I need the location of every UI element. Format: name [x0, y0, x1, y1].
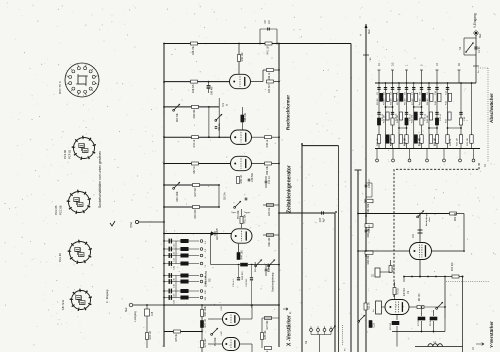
capacitor C12 — [169, 247, 175, 256]
wire rail 145 — [302, 145, 339, 147]
capacitor C48 top — [248, 172, 254, 182]
resistor R59 top — [237, 175, 243, 183]
wire y rail left — [403, 277, 405, 283]
svg-text:R61 30k: R61 30k — [367, 203, 370, 213]
attenuator column 11 — [460, 82, 462, 148]
svg-text:R3 1k: R3 1k — [396, 287, 399, 294]
wire V5 to bus V2 — [251, 70, 280, 82]
svg-text:R63 20k: R63 20k — [367, 255, 370, 265]
svg-text:C48 50n: C48 50n — [251, 172, 254, 182]
attenuator resistor row2b col11 — [459, 118, 462, 125]
potentiometer P6 sync — [255, 260, 262, 267]
resistor R70 — [445, 262, 463, 278]
wire r19 down — [146, 322, 148, 348]
wire sync L — [210, 233, 240, 265]
switch contact C19 — [200, 290, 207, 294]
resistor R69 — [201, 305, 207, 316]
trimmer C7 — [436, 302, 443, 309]
attenuator resistor row2b col5 — [405, 118, 408, 125]
attenuator resistor row2 col6 — [412, 112, 418, 123]
resistor bank C16 — [181, 280, 189, 283]
junction — [163, 106, 165, 108]
svg-text:R47 4k7: R47 4k7 — [194, 187, 197, 197]
label Rechteckformer — [286, 95, 291, 130]
grid box C2 — [373, 301, 382, 314]
wire cap row C15 — [163, 275, 199, 277]
resistor R58 — [241, 107, 247, 130]
diode Gr2 — [211, 228, 219, 240]
svg-text:R9 1M: R9 1M — [427, 98, 429, 105]
label Anodenkappe — [425, 212, 431, 226]
attenuator capacitor row0 col1 — [377, 88, 381, 96]
resistor C23 — [369, 321, 375, 328]
svg-text:C40 4n7: C40 4n7 — [212, 86, 214, 95]
tick T — [355, 170, 362, 171]
svg-text:R24 1M: R24 1M — [390, 138, 392, 146]
wire t8 left — [357, 250, 409, 252]
attenuator resistor row3 col9 — [435, 135, 439, 146]
capacitor C9 — [268, 28, 270, 31]
attenuator column 3 — [392, 82, 394, 148]
attenuator resistor row1 col9 — [435, 93, 441, 105]
svg-text:R31 2k: R31 2k — [450, 138, 452, 146]
resistor R72 — [201, 319, 207, 327]
resistor R37 — [267, 80, 274, 93]
svg-text:3 · Eingang: 3 · Eingang — [105, 289, 109, 303]
svg-text:R57 1k: R57 1k — [193, 165, 196, 173]
wire t8 down — [419, 260, 421, 278]
svg-text:R30 1M: R30 1M — [435, 138, 437, 146]
wire v1 anode — [409, 306, 446, 308]
tube socket PCF80/PCF82 (viewed from below) — [72, 136, 96, 160]
svg-text:R22 2k: R22 2k — [367, 302, 370, 310]
attenuator capacitor row2a col9 — [435, 112, 442, 121]
label Y-Verstaerker — [489, 321, 494, 348]
svg-text:Anodenkappe: Anodenkappe — [425, 212, 428, 226]
svg-text:R56 10k: R56 10k — [266, 165, 269, 175]
capacitor C18 — [145, 304, 155, 322]
dashed screen left — [393, 169, 395, 298]
resistor R44 — [237, 250, 243, 260]
svg-text:R26 1M: R26 1M — [404, 138, 406, 146]
svg-text:Sockelschaltbilder von unten g: Sockelschaltbilder von unten gesehen — [98, 151, 102, 208]
capacitor C15 — [169, 273, 175, 282]
svg-text:Y-Eingang: Y-Eingang — [473, 13, 477, 28]
label PCF80 PCF82 — [63, 149, 72, 159]
capacitor C20 — [169, 295, 175, 304]
wire y mid vert — [444, 276, 446, 319]
wire top rail — [164, 43, 351, 45]
label S3 Zeitablenkung — [205, 271, 212, 287]
resistor R38 — [267, 69, 274, 81]
junction V2-70 — [278, 69, 280, 82]
resistor R68 — [241, 263, 248, 280]
attenuator resistor row3 col6 — [414, 135, 421, 146]
svg-text:R53 1k: R53 1k — [218, 123, 221, 131]
svg-text:R39 1k: R39 1k — [266, 139, 269, 147]
junction — [163, 163, 165, 165]
label 1nF — [473, 66, 480, 73]
capacitor C11 — [169, 253, 175, 262]
resistor R56 — [265, 162, 272, 175]
svg-text:R50 10k: R50 10k — [241, 52, 244, 62]
triode V4a — [231, 130, 252, 144]
svg-text:PCF 80: PCF 80 — [63, 149, 67, 159]
attenuator resistor row3 col7 — [419, 135, 423, 146]
svg-text:D67-Th 6: D67-Th 6 — [58, 81, 62, 94]
svg-text:P8 250k: P8 250k — [214, 337, 217, 347]
capacitor C14 — [265, 175, 271, 188]
wire y in — [380, 260, 391, 272]
wire main bus V1 vertical — [163, 44, 165, 348]
resistor R51 — [240, 214, 246, 224]
junction — [335, 211, 337, 213]
wire stub 219 — [218, 98, 220, 138]
label Sync Trigger — [231, 211, 250, 214]
capacitor C40 — [207, 81, 214, 95]
svg-text:R60 20k: R60 20k — [193, 109, 196, 119]
svg-text:R70 47k: R70 47k — [452, 262, 454, 271]
svg-text:R42 1k: R42 1k — [193, 139, 196, 147]
svg-text:C15 0,1: C15 0,1 — [268, 263, 271, 272]
potentiometer P5 sync — [234, 201, 241, 219]
svg-text:Gr2 OA625: Gr2 OA625 — [216, 228, 219, 240]
attenuator resistor row3 colB — [457, 135, 463, 146]
svg-text:PCF 82: PCF 82 — [68, 149, 72, 159]
svg-text:R33 1M: R33 1M — [467, 138, 469, 146]
svg-text:C26 0,1: C26 0,1 — [368, 224, 371, 233]
selector stub 0,3 — [391, 62, 395, 83]
svg-text:Sync.: Sync. — [231, 212, 237, 214]
resistor R47 — [193, 184, 200, 197]
label Synchronisierung — [272, 272, 275, 292]
label AB7211 — [61, 299, 65, 310]
attenuator resistor row2b col1 — [377, 118, 380, 125]
arrow B+ top — [359, 24, 371, 36]
attenuator resistor row2 col2 — [383, 112, 389, 123]
capacitor C19 — [169, 289, 175, 298]
resistor R66 mid — [263, 234, 279, 247]
switch contact C13 — [200, 240, 207, 244]
svg-text:R48 15k: R48 15k — [192, 45, 195, 55]
resistor bank C19 — [181, 289, 189, 292]
attenuator column 2 — [385, 82, 387, 148]
svg-text:S1: S1 — [458, 46, 462, 50]
label PCC85 PCC88 — [54, 205, 63, 215]
dotted F1 drop — [343, 325, 347, 351]
switch contact C11 — [200, 254, 207, 258]
vertical x=202 — [201, 304, 203, 352]
wire V4a to bus V2 — [252, 136, 280, 138]
wire blank right — [457, 214, 464, 251]
wire attenuator bottom bus — [375, 148, 480, 150]
wire sync stem — [241, 209, 243, 228]
switch contact C12 — [200, 248, 207, 252]
attenuator resistor row1 col6 — [412, 93, 418, 105]
capacitor C10 — [169, 261, 175, 270]
svg-text:Synchronisierung: Synchronisierung — [272, 272, 275, 292]
switch contact C20 — [200, 296, 207, 300]
junction — [163, 184, 165, 186]
connector Bu2 — [129, 303, 164, 307]
junction top-left — [163, 43, 165, 45]
svg-text:R77 40k: R77 40k — [266, 320, 269, 330]
parallel RC loop C9 — [259, 29, 278, 44]
triode V8b — [219, 331, 240, 351]
svg-text:½: ½ — [225, 104, 229, 106]
capacitor C12s — [233, 266, 240, 287]
potentiometer P8 — [211, 328, 218, 346]
potentiometer R53 — [215, 114, 222, 131]
triode V3 — [231, 229, 252, 243]
triode V5 — [230, 74, 251, 88]
svg-text:R68 820: R68 820 — [242, 271, 244, 280]
svg-text:R67a 400k: R67a 400k — [255, 261, 257, 272]
svg-text:AB 7211: AB 7211 — [61, 299, 65, 310]
wire stub 219b — [218, 184, 220, 208]
resistor R40 mid — [263, 204, 279, 217]
arrow x1 — [283, 308, 292, 314]
triode V4b — [231, 156, 252, 170]
svg-text:R73 4k7: R73 4k7 — [204, 338, 207, 348]
svg-text:R15 47k: R15 47k — [412, 114, 414, 123]
note Sockelschaltbilder von unten gesehen — [98, 151, 102, 208]
attenuator capacitor row2a col11 — [459, 112, 466, 121]
attenuator tie c — [398, 127, 407, 129]
wire bu1 down — [475, 35, 477, 83]
attenuator resistor row1 col4 — [397, 93, 403, 105]
attenuator resistor row2 col10 — [445, 112, 451, 123]
svg-text:Y-Verstärker: Y-Verstärker — [489, 321, 494, 348]
coil L1 — [428, 341, 442, 347]
wire x rail lower — [164, 331, 202, 333]
wire V3 cathode down — [238, 244, 240, 253]
resistor bank C15 — [181, 274, 189, 277]
attenuator resistor row1 col3 — [391, 93, 397, 105]
svg-text:R8 1M: R8 1M — [420, 98, 422, 105]
tick 45v — [363, 55, 372, 60]
wire bank tie 1 — [175, 241, 177, 264]
svg-text:R19 1M: R19 1M — [149, 331, 152, 339]
selector stub 1 — [405, 64, 409, 83]
attenuator contact 7 — [472, 149, 475, 162]
label Bu2 — [125, 307, 128, 312]
attenuator tie d — [428, 127, 438, 129]
attenuator tie a — [385, 106, 394, 108]
attenuator resistor row1 col5 — [405, 93, 411, 105]
resistor bank C10 — [181, 262, 189, 265]
tetrode V2 — [410, 243, 432, 260]
wire V5 anode up — [238, 43, 240, 75]
wire tube t8 top — [419, 213, 421, 243]
wire bus V2 vertical — [278, 44, 280, 348]
label 7(Bu) — [130, 222, 133, 228]
svg-text:R5 2k2: R5 2k2 — [430, 318, 432, 326]
resistor R2 cathode — [390, 321, 399, 330]
attenuator capacitor row0 col9 — [435, 88, 439, 96]
svg-text:S2: S2 — [304, 340, 308, 344]
resistor chain R b — [365, 224, 373, 238]
wire cap row C12 — [163, 248, 199, 250]
attenuator resistor row3 col1 — [377, 135, 381, 146]
svg-text:Bu2: Bu2 — [125, 307, 128, 312]
attenuator capacitor row2a col1 — [377, 112, 384, 121]
attenuator resistor row3 col8 — [429, 135, 436, 146]
label Y-Eingang — [473, 13, 477, 28]
resistor R39 — [265, 136, 272, 148]
wire anode rail V5 — [164, 81, 230, 83]
attenuator contact 6 — [459, 149, 462, 162]
attenuator resistor row2 col4 — [397, 112, 403, 123]
wire r7 stub — [421, 306, 423, 331]
wire vertical V4 line — [334, 213, 336, 352]
svg-text:R7 1M: R7 1M — [412, 98, 414, 105]
dotted tie F1 — [478, 67, 488, 69]
attenuator resistor row3 col3 — [390, 135, 394, 146]
connector 7(Bu) — [135, 220, 165, 223]
attenuator column 8 — [428, 82, 430, 148]
svg-text:P5 100k: P5 100k — [237, 210, 240, 220]
svg-text:C25 0,1: C25 0,1 — [368, 179, 371, 188]
svg-text:R13 1M: R13 1M — [383, 115, 385, 123]
svg-text:+: + — [359, 34, 363, 36]
junction x rail — [163, 304, 165, 306]
wire rail c27 — [279, 212, 335, 214]
wire v8 link — [208, 319, 223, 344]
capacitor C13 — [169, 239, 175, 248]
wire v1 down — [392, 315, 397, 347]
wire cap row C20 — [163, 297, 199, 299]
capacitor C31 — [413, 230, 423, 238]
svg-text:Bu1: Bu1 — [479, 33, 482, 38]
resistor R5 — [430, 317, 437, 326]
resistor R60 — [192, 105, 199, 118]
attenuator resistor row3 colC — [467, 135, 473, 146]
attenuator capacitor row0 col5 — [405, 88, 409, 96]
resistor chain R a — [365, 199, 373, 213]
attenuator resistor row3 col4 — [399, 135, 406, 146]
label C9 1nF — [264, 19, 271, 24]
vertical corner x338 — [338, 146, 340, 352]
capacitor C1 — [474, 46, 481, 53]
potentiometer R64 — [173, 182, 180, 202]
svg-text:R51 30k: R51 30k — [243, 214, 246, 224]
wire cap row C11 — [163, 255, 199, 257]
switch contact C15 — [200, 274, 207, 278]
label X-Verstaerker — [287, 315, 293, 346]
svg-text:R28 47k: R28 47k — [419, 137, 421, 146]
svg-text:R44 1k5: R44 1k5 — [240, 250, 243, 260]
capacitor C41b — [245, 198, 248, 200]
capacitor C27 — [319, 211, 326, 222]
wire B+ bus V6 — [365, 24, 367, 352]
svg-text:R1 1M: R1 1M — [392, 265, 395, 272]
resistor R78 — [261, 318, 267, 348]
rotary switch S4 wafer (viewed from below) — [65, 63, 99, 97]
attenuator resistor row1 col2 — [384, 93, 390, 105]
svg-text:V4: V4 — [221, 103, 225, 107]
tube socket PCL82 (viewed from below) — [68, 240, 92, 264]
wire grid rail V4a — [164, 136, 231, 138]
svg-text:R37 4k7: R37 4k7 — [268, 84, 271, 94]
attenuator column 12 — [471, 82, 473, 148]
resistor R46 — [193, 206, 200, 219]
potentiometer R67 — [173, 104, 180, 122]
wire t8 right — [432, 250, 465, 252]
wire v8 right — [240, 304, 253, 352]
capacitor C16 — [169, 279, 175, 288]
resistor R19 — [146, 331, 152, 339]
attenuator resistor row1 col7 — [420, 93, 426, 105]
attenuator capacitor row2a col5 — [405, 112, 412, 121]
wire grid rail V4b — [164, 163, 231, 165]
attenuator resistor row1 col10 — [446, 93, 452, 105]
junction c27 left — [278, 212, 280, 214]
junction — [365, 215, 367, 217]
svg-text:R66 10k: R66 10k — [268, 237, 271, 247]
wire s2 down — [318, 331, 320, 352]
label Zeitablenkgenerator — [287, 165, 293, 213]
resistor R79 — [265, 347, 272, 352]
pentode V1 EF734 — [385, 300, 409, 315]
wire v1 left — [382, 306, 386, 308]
dashed screen corner — [478, 163, 480, 169]
attenuator contact 1 — [376, 149, 379, 162]
svg-text:C12 4n7: C12 4n7 — [233, 278, 235, 287]
resistor R1 — [389, 265, 395, 272]
dotted border right — [487, 68, 489, 162]
resistor bank C11 — [181, 254, 189, 257]
wire rail grid V4 — [164, 106, 219, 108]
svg-text:C23: C23 — [372, 322, 375, 327]
wire r3 — [394, 282, 396, 300]
wire rail P-sync — [164, 184, 219, 186]
attenuator resistor row2b col9 — [435, 118, 438, 125]
attenuator capacitor row0 col8 — [427, 88, 431, 96]
label P6 — [255, 261, 257, 272]
switch contact C16 — [200, 280, 207, 284]
junction — [301, 143, 303, 145]
selector stub 30 — [458, 63, 462, 83]
resistor R30 — [450, 212, 458, 221]
potentiometer P9 — [358, 315, 365, 322]
switch S2 contacts — [310, 326, 333, 334]
label D67-Th6 — [58, 81, 62, 94]
resistor R7 — [418, 317, 425, 326]
wire s2 wiper — [331, 325, 336, 331]
svg-text:C1 5n: C1 5n — [478, 46, 481, 53]
svg-text:R14 1M: R14 1M — [397, 115, 399, 123]
junction V2 top — [278, 43, 280, 45]
svg-text:R49 47k: R49 47k — [192, 83, 195, 93]
attenuator contact 5 — [443, 149, 446, 162]
attenuator resistor row2b col3 — [391, 118, 394, 125]
attenuator resistor row2 col8 — [427, 112, 433, 123]
svg-text:R6 1M: R6 1M — [405, 98, 407, 105]
attenuator capacitor row0 col7 — [420, 88, 424, 96]
label P7 — [268, 263, 270, 272]
attenuator resistor row1 col1 — [377, 93, 383, 105]
tube socket AB7211 (viewed from below) — [70, 289, 92, 311]
svg-text:4µF: 4µF — [323, 217, 326, 222]
attenuator capacitor row2a col7 — [420, 112, 427, 121]
resistor R41 — [265, 42, 272, 55]
junction — [163, 81, 165, 83]
arrow F2 right — [472, 343, 484, 350]
switch S1 — [458, 38, 476, 55]
svg-text:R46 400: R46 400 — [194, 209, 197, 219]
attenuator column 5 — [406, 82, 408, 148]
